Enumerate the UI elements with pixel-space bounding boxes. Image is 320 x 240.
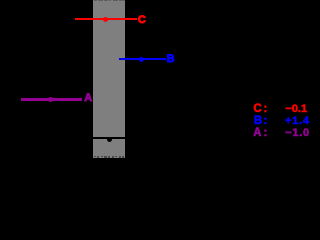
purple dot A (48, 97, 53, 102)
legend colon row B (264, 116, 268, 126)
label A (84, 93, 92, 103)
purple line A (21, 98, 82, 100)
label B (167, 54, 175, 64)
black dot D (107, 137, 113, 143)
legend letter A (253, 128, 261, 138)
potential barrier (gray bar) (93, 0, 125, 158)
clipped text marks at bottom of bar (94, 156, 96, 158)
red dot C (103, 17, 108, 22)
legend colon row C (264, 104, 268, 114)
black line D crossing bar (93, 137, 125, 139)
legend colon row A (264, 128, 268, 138)
legend letter B (254, 116, 262, 126)
red line C (75, 18, 137, 20)
blue line B (119, 58, 166, 60)
legend letter C (253, 104, 261, 114)
legend value B (285, 116, 310, 126)
blue dot B (139, 57, 144, 62)
clipped text marks at top of bar (94, 0, 96, 1)
legend value C (285, 104, 307, 114)
legend value A (285, 128, 310, 138)
label C (138, 15, 146, 25)
